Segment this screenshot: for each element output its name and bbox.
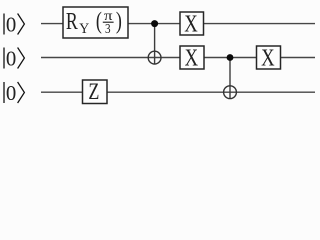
target oplus CNOT2 on q2 — [224, 86, 237, 99]
ket |0> qubit q0 — [4, 13, 24, 36]
target oplus CNOT1 on q1 — [148, 51, 161, 64]
svg-text:(: ( — [96, 7, 102, 34]
control dot CNOT1 on q0 — [151, 20, 158, 27]
svg-text:3: 3 — [105, 21, 111, 36]
wire qubit q0 — [41, 23, 315, 25]
ket |0> qubit q2 — [4, 82, 24, 105]
gate X box on q0 — [180, 10, 204, 37]
svg-text:Y: Y — [79, 20, 89, 37]
wire CNOT2 vertical control line — [229, 58, 231, 99]
svg-text:Z: Z — [88, 79, 99, 105]
svg-text:R: R — [66, 9, 78, 35]
svg-text:X: X — [184, 10, 198, 37]
svg-text:X: X — [185, 44, 199, 71]
gate X box 1 on q1 — [180, 44, 204, 71]
wire qubit q2 — [41, 91, 315, 93]
control dot CNOT2 on q1 — [227, 54, 234, 61]
svg-text:X: X — [261, 44, 275, 71]
svg-text:): ) — [116, 7, 122, 34]
svg-text:0: 0 — [6, 13, 16, 36]
wire CNOT1 vertical control line — [154, 24, 156, 64]
gate RY(pi/3) box on q0 — [63, 7, 128, 38]
ket |0> qubit q1 — [4, 47, 24, 70]
gate X box 2 on q1 — [257, 44, 281, 71]
gate Z box on q2 — [83, 79, 108, 105]
svg-text:0: 0 — [6, 47, 16, 70]
svg-text:0: 0 — [6, 82, 16, 105]
wire qubit q1 — [41, 57, 315, 59]
